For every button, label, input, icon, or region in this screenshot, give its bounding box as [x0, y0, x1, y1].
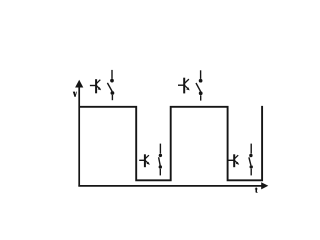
waveform: [79, 106, 262, 180]
transistor Q1 (above pulse 1): [90, 79, 101, 93]
switch S3 (gap 1): [159, 144, 162, 176]
t axis: [78, 182, 268, 189]
transistor Q3 (gap 1): [139, 154, 150, 167]
transistor Q2 (above pulse 2): [178, 78, 190, 94]
v axis label: [73, 92, 77, 97]
t axis label: [255, 188, 258, 193]
transistor Q4 (gap 2): [229, 154, 240, 167]
switch S2 (above pulse 2): [196, 70, 203, 100]
v axis: [75, 80, 83, 187]
switch S4 (gap 2): [249, 144, 253, 176]
switch S1 (above pulse 1): [107, 70, 114, 100]
